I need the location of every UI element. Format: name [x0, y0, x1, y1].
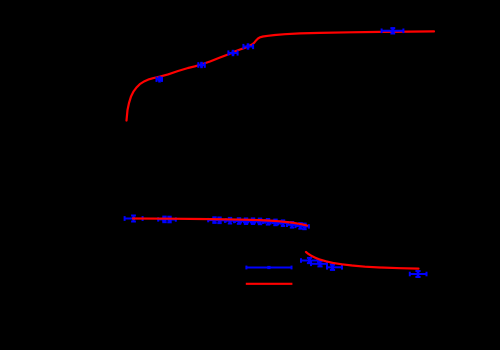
data point M6	[225, 218, 235, 224]
data point L4	[410, 271, 427, 277]
legend: data errorbar sample (blue)	[246, 266, 291, 270]
data point M4	[208, 217, 220, 223]
data point M13	[278, 220, 288, 226]
lower branch fit curve (red)	[306, 252, 419, 269]
data point M2	[158, 217, 170, 223]
data point L2	[311, 261, 327, 266]
data point M3	[163, 217, 176, 223]
data point T5	[382, 28, 404, 33]
data point T2	[198, 62, 205, 68]
data point M15	[296, 223, 306, 229]
data point T1	[157, 77, 163, 82]
data point L3	[327, 265, 342, 270]
upper branch fit curve (red)	[127, 31, 435, 120]
data point M8	[241, 218, 251, 224]
data point M5	[213, 218, 225, 224]
data point T4	[243, 44, 253, 49]
middle branch fit line (red)	[133, 219, 307, 226]
data point M14	[287, 222, 297, 228]
data point M16	[300, 224, 309, 230]
data point M7	[234, 218, 244, 224]
legend: fit line sample (red)	[246, 283, 293, 285]
data point M9	[248, 218, 258, 224]
data point L1	[301, 258, 318, 263]
data point M12	[271, 220, 281, 226]
data point M11	[263, 219, 273, 225]
data point M10	[255, 219, 265, 225]
data point M1	[125, 216, 143, 222]
data point T3	[228, 50, 237, 55]
